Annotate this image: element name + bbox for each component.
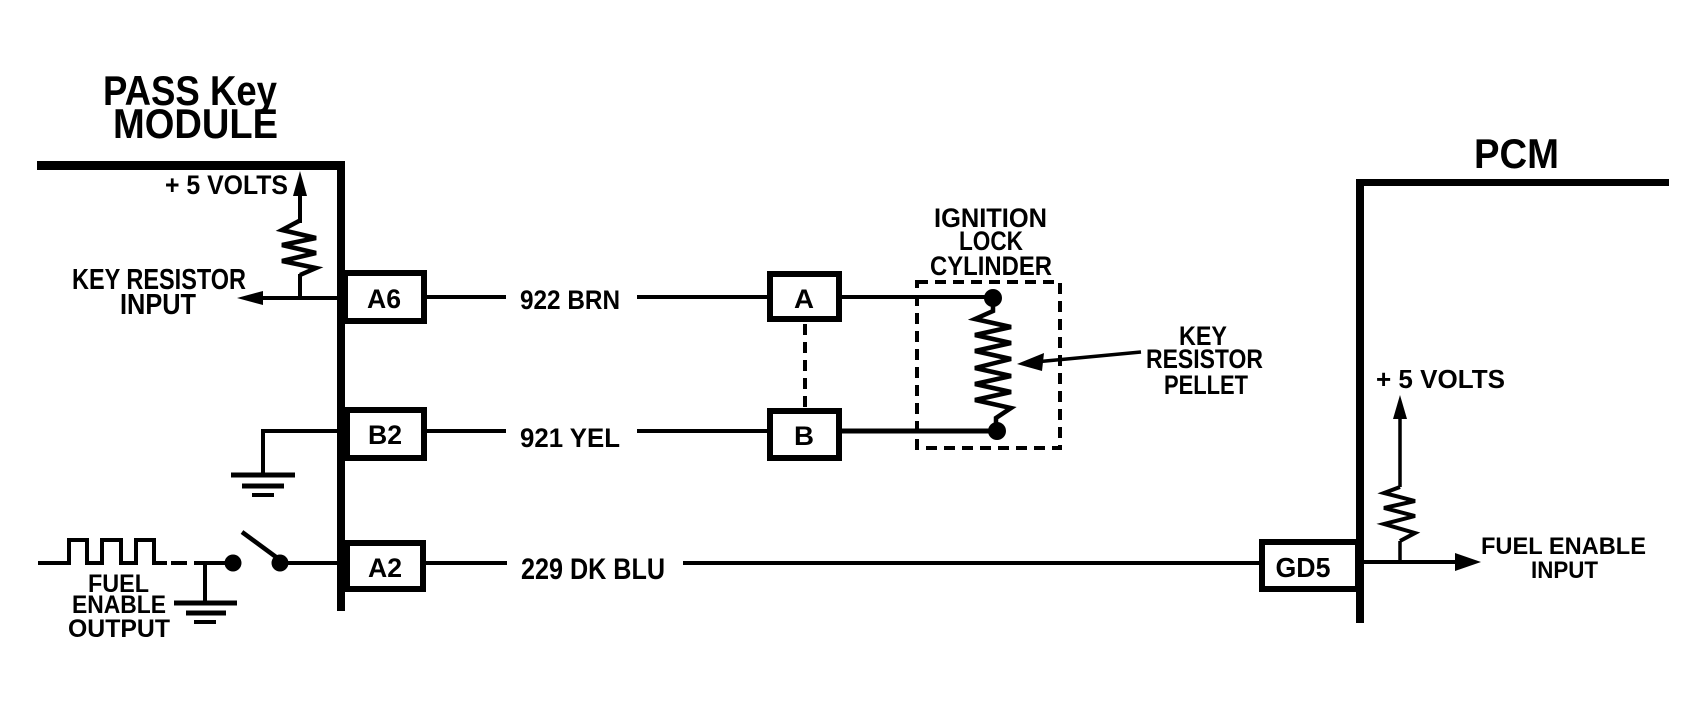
terminal A	[770, 274, 839, 319]
svg-text:INPUT: INPUT	[120, 289, 196, 321]
dashed link A to B key sense	[803, 324, 807, 408]
fuel enable output waveform	[38, 540, 167, 563]
KEY RESISTOR PELLET pointer arrow	[1017, 352, 1141, 371]
wire resistor R1 to node	[298, 274, 302, 298]
dashed wire segment	[171, 561, 199, 565]
terminal B	[770, 411, 839, 458]
pin B2	[347, 410, 424, 458]
switch node right dot	[272, 555, 289, 572]
KEY RESISTOR INPUT label	[72, 264, 246, 321]
wire 921 YEL to terminal B	[637, 429, 770, 433]
PASS Key MODULE boundary	[37, 161, 345, 611]
wire A2 to label 229 DK BLU	[426, 561, 507, 565]
wire ground tap	[203, 563, 207, 603]
svg-text:GD5: GD5	[1276, 552, 1331, 583]
key resistor pellet R2	[975, 306, 1011, 428]
wire terminal A to pellet	[842, 295, 993, 299]
+5V supply arrow (module)	[293, 171, 307, 223]
node dot pellet top	[984, 289, 1002, 307]
svg-text:B2: B2	[368, 420, 402, 450]
+5V supply arrow (PCM)	[1393, 395, 1407, 487]
pin A2	[347, 543, 423, 589]
svg-text:PELLET: PELLET	[1164, 370, 1248, 400]
node dot pellet bottom	[988, 422, 1006, 440]
IGNITION LOCK CYLINDER label	[930, 203, 1052, 281]
wire A6 to label 922 BRN	[427, 295, 506, 299]
svg-text:922 BRN: 922 BRN	[520, 285, 620, 315]
svg-text:921 YEL: 921 YEL	[520, 423, 620, 453]
wire 922 BRN to terminal A	[637, 295, 770, 299]
svg-text:+ 5 VOLTS: + 5 VOLTS	[1376, 364, 1505, 394]
svg-text:PCM: PCM	[1474, 130, 1559, 177]
switch blade	[242, 532, 276, 557]
svg-text:MODULE: MODULE	[113, 100, 278, 147]
svg-text:A: A	[794, 284, 814, 314]
svg-text:CYLINDER: CYLINDER	[930, 251, 1052, 281]
KEY RESISTOR PELLET label	[1146, 321, 1263, 400]
resistor R1 module pull-up	[282, 221, 316, 275]
KEY RESISTOR INPUT arrow	[237, 291, 339, 305]
wire B2 to ground	[263, 429, 341, 475]
svg-text:B: B	[794, 421, 814, 451]
svg-text:INPUT: INPUT	[1531, 557, 1598, 584]
ground (fuel enable)	[174, 603, 237, 622]
svg-text:A6: A6	[367, 284, 401, 314]
resistor R3 PCM pull-up	[1384, 487, 1415, 541]
ignition lock cylinder outline	[917, 282, 1060, 448]
pin A6	[345, 273, 424, 321]
svg-text:229 DK BLU: 229 DK BLU	[521, 553, 665, 586]
wire terminal B to pellet bottom	[842, 429, 997, 434]
svg-text:OUTPUT: OUTPUT	[68, 615, 170, 643]
svg-text:+ 5 VOLTS: + 5 VOLTS	[165, 170, 288, 200]
FUEL ENABLE OUTPUT label	[68, 570, 170, 643]
wire 229 DK BLU to GD5	[683, 561, 1262, 565]
wire B2 to label 921 YEL	[427, 429, 506, 433]
wire resistor R3 to fuel enable line	[1398, 541, 1402, 562]
svg-text:A2: A2	[368, 553, 402, 583]
FUEL ENABLE INPUT label	[1481, 533, 1646, 584]
wire GD5 to fuel enable input arrow	[1364, 553, 1481, 571]
wire to switch node	[199, 561, 226, 565]
wire switch to A2	[288, 561, 341, 565]
PASS Key MODULE label	[103, 67, 278, 147]
PCM boundary	[1356, 179, 1669, 623]
switch node left dot	[225, 555, 242, 572]
ground (B2)	[231, 475, 295, 495]
svg-text:FUEL ENABLE: FUEL ENABLE	[1481, 533, 1646, 560]
pin GD5	[1262, 542, 1358, 589]
